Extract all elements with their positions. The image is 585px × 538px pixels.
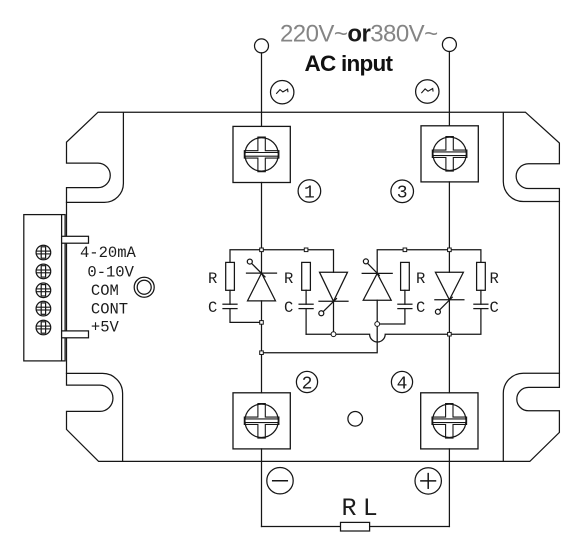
screw terminal 4 square <box>421 393 478 449</box>
capacitor C3 <box>398 304 412 308</box>
block screw 1 <box>36 245 51 260</box>
svg-text:CONT: CONT <box>91 301 128 319</box>
svg-text:R: R <box>489 270 498 288</box>
SCR Q3 <box>362 259 392 300</box>
connector tab lower <box>62 331 89 338</box>
label 220V~or380V~ <box>280 21 438 48</box>
wire R1 to C1 <box>229 290 231 304</box>
pin number 4 <box>391 371 412 394</box>
capacitor C4 <box>474 304 488 308</box>
wire rail A with crossover hop <box>306 334 449 342</box>
wire: screw3 to SCR Q4 <box>448 182 450 272</box>
block screw 5 <box>36 320 51 335</box>
load resistor RL <box>341 522 370 531</box>
junction node top rail 2 <box>448 248 452 252</box>
svg-text:R: R <box>208 270 217 288</box>
svg-text:L: L <box>363 494 378 523</box>
svg-text:4: 4 <box>397 374 408 394</box>
junction node Q3 bottom <box>375 322 380 327</box>
connector tab upper <box>62 236 89 243</box>
output polarity minus <box>267 468 293 494</box>
screw head 4 <box>432 404 467 439</box>
wire: Q2 cathode down to rail A <box>333 301 335 334</box>
svg-text:4-20mA: 4-20mA <box>80 244 137 262</box>
block screw 3 <box>36 283 51 298</box>
load rail left <box>262 526 341 528</box>
svg-text:R: R <box>284 270 293 288</box>
screw terminal 2 square <box>233 393 290 449</box>
svg-text:AC input: AC input <box>305 51 394 76</box>
control connector block <box>24 215 65 361</box>
screw head 2 <box>244 404 279 439</box>
junction node Q3 return <box>260 351 264 355</box>
resistor R3 <box>401 262 410 290</box>
wire R4 to C4 <box>480 290 482 304</box>
output polarity plus <box>415 468 441 494</box>
wire: screw4 down to load rail <box>448 449 450 527</box>
SCR Q2 <box>319 272 348 316</box>
svg-text:C: C <box>416 299 425 317</box>
resistor R1 <box>226 262 235 290</box>
junction node top rail 1 <box>260 248 264 252</box>
svg-text:C: C <box>284 299 293 317</box>
LED indicator <box>134 277 154 297</box>
svg-text:+5V: +5V <box>91 319 120 337</box>
wire C2 down to rail A <box>305 309 307 335</box>
junction node R3 top <box>403 248 407 252</box>
AC input terminal left <box>255 39 269 53</box>
wire R2 to C2 <box>305 290 307 304</box>
wire: C3 bottom link <box>377 309 405 324</box>
AC symbol left <box>271 81 294 104</box>
pin number 1 <box>298 180 321 204</box>
module outer outline with mounting ears <box>67 112 560 461</box>
block screw 4 <box>36 301 51 316</box>
svg-text:220V~or380V~: 220V~or380V~ <box>280 21 438 48</box>
AC symbol right <box>416 80 439 103</box>
pin number 3 <box>391 180 414 204</box>
label R L <box>341 494 377 523</box>
wire: top rail pair 1 <box>230 250 334 272</box>
block screw 2 <box>36 264 51 279</box>
svg-text:0-10V: 0-10V <box>87 263 134 281</box>
svg-text:2: 2 <box>302 374 313 394</box>
wire: top rail pair 2 <box>377 250 481 274</box>
svg-text:R: R <box>416 270 425 288</box>
resistor R2 <box>302 262 311 290</box>
capacitor C1 <box>223 304 237 308</box>
junction node Q2 bottom <box>331 332 336 337</box>
housing contour top-right <box>503 113 559 202</box>
load rail right <box>370 526 450 528</box>
svg-text:R: R <box>341 494 356 523</box>
junction node rail A right <box>448 332 452 336</box>
junction node R2 top <box>304 248 308 252</box>
svg-text:C: C <box>489 299 498 317</box>
AC input terminal right <box>442 38 456 52</box>
svg-text:3: 3 <box>397 184 408 204</box>
wire: left input terminal to screw 1 <box>261 53 263 127</box>
pin number 2 <box>296 371 317 394</box>
housing contour top-left <box>67 113 124 203</box>
wire: Q4 cathode down to screw 4 <box>448 300 450 393</box>
wire: screw2 down to load rail <box>261 449 263 527</box>
wire: right input terminal to screw 3 <box>448 52 450 126</box>
screw head 1 <box>244 137 279 172</box>
wire: Q1 anode down to screw 2 <box>261 301 263 393</box>
wire R3 to C3 <box>404 290 406 304</box>
housing contour bottom-left <box>67 373 123 461</box>
wire: screw1 to SCR Q1 <box>261 183 263 274</box>
resistor R4 <box>477 262 486 290</box>
mounting hole <box>348 412 363 427</box>
svg-text:C: C <box>208 299 217 317</box>
svg-text:1: 1 <box>304 183 315 203</box>
wire: Q3 anode down, across to left main wire <box>262 300 378 353</box>
SCR Q4 <box>435 272 464 314</box>
wire C4 down to rail A <box>449 309 481 335</box>
junction node C1 bottom <box>260 321 264 325</box>
screw terminal 1 square <box>233 126 290 182</box>
wire C1 to cathode rail <box>230 309 262 323</box>
svg-text:COM: COM <box>91 282 119 300</box>
SCR Q1 <box>247 259 277 301</box>
screw terminal 3 square <box>421 126 478 182</box>
housing contour bottom-right <box>503 373 559 461</box>
capacitor C2 <box>299 304 313 308</box>
screw head 3 <box>432 137 467 172</box>
